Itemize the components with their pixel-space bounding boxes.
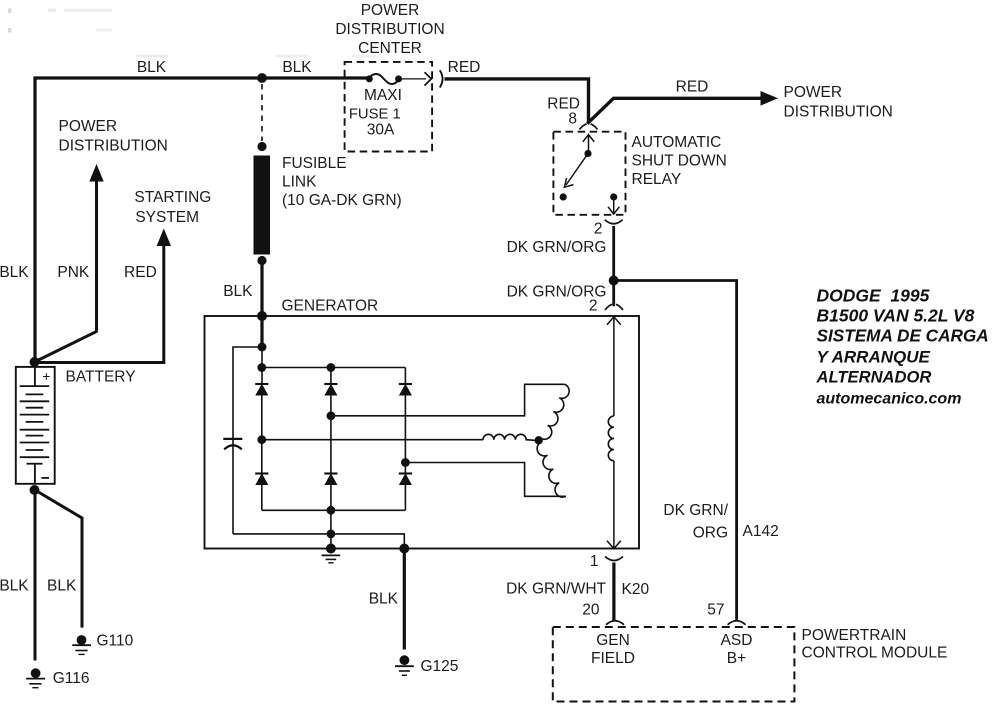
wire leg2 upper — [330, 368, 332, 385]
wire BLK battery to G110 — [35, 490, 82, 628]
connector cup PCM pin 20 — [606, 621, 624, 625]
wire RED to relay pin 8 — [445, 79, 589, 123]
svg-text:PNK: PNK — [57, 264, 90, 281]
connector male arrow — [425, 72, 432, 85]
node capacitor branch — [258, 343, 267, 352]
diode D4 — [255, 474, 268, 485]
wire PNK to power distribution — [37, 182, 97, 362]
svg-text:A142: A142 — [743, 523, 779, 540]
capacitor C1 — [223, 438, 242, 440]
svg-text:SISTEMA DE CARGA: SISTEMA DE CARGA — [817, 326, 989, 346]
svg-text:DISTRIBUTION: DISTRIBUTION — [784, 104, 893, 121]
generator G1 box — [205, 316, 640, 549]
svg-text:ASD: ASD — [721, 632, 753, 649]
svg-text:DODGE 1995: DODGE 1995 — [817, 286, 930, 306]
ground G125 — [400, 655, 410, 665]
wire leg2 lower — [330, 484, 332, 548]
wire inside generator top — [260, 316, 263, 347]
svg-text:SYSTEM: SYSTEM — [135, 209, 199, 226]
stator coil lower — [537, 442, 566, 497]
relay K1 automatic shut down relay box — [553, 132, 625, 215]
wire BLK battery to G116 — [34, 490, 37, 661]
node fusible link bottom — [257, 256, 266, 265]
node middle rail leg1 — [257, 435, 266, 444]
wire BLK fusible link to generator — [260, 261, 263, 316]
bottom rail — [262, 509, 406, 511]
svg-text:POWER: POWER — [784, 84, 843, 101]
ground symbol generator internal — [322, 555, 341, 562]
node top rail leg2 — [327, 363, 336, 372]
svg-text:ALTERNADOR: ALTERNADOR — [816, 368, 932, 387]
ground rail — [233, 534, 404, 549]
svg-text:BLK: BLK — [0, 264, 29, 281]
relay output contact dot — [610, 193, 617, 200]
phase3 lead — [405, 463, 566, 497]
svg-text:POWER: POWER — [59, 118, 118, 135]
svg-text:DK GRN/ORG: DK GRN/ORG — [507, 239, 607, 256]
wire BLK generator to G125 — [403, 549, 406, 650]
svg-text:BLK: BLK — [223, 283, 253, 300]
fuse F1 MAXI FUSE 1 30A — [366, 75, 373, 82]
svg-text:CONTROL MODULE: CONTROL MODULE — [802, 645, 948, 662]
svg-text:AUTOMATIC: AUTOMATIC — [632, 134, 722, 151]
wire leg3 mid — [404, 395, 406, 474]
connector cup generator pin 1 — [605, 557, 623, 561]
svg-text:2: 2 — [594, 221, 603, 238]
svg-text:RED: RED — [448, 59, 481, 76]
svg-text:2: 2 — [589, 298, 598, 315]
battery minus — [42, 477, 50, 479]
node generator ground — [326, 544, 336, 554]
svg-text:DK GRN/WHT: DK GRN/WHT — [506, 581, 606, 598]
svg-text:8: 8 — [568, 111, 577, 128]
node battery negative — [30, 485, 40, 495]
svg-text:RELAY: RELAY — [632, 171, 682, 188]
wire leg3 upper — [404, 368, 406, 385]
wire fuse to connector — [399, 78, 426, 80]
wire DK GRN/ORG relay to generator — [612, 226, 615, 306]
phase2 lead — [331, 384, 565, 416]
svg-text:automecanico.com: automecanico.com — [817, 391, 962, 408]
svg-text:30A: 30A — [367, 122, 395, 139]
svg-text:Y ARRANQUE: Y ARRANQUE — [817, 348, 931, 367]
svg-text:K20: K20 — [622, 581, 650, 598]
wire leg1 mid — [261, 395, 263, 474]
generator pin 1 arrow — [613, 461, 615, 548]
svg-text:G125: G125 — [421, 658, 459, 675]
PCM powertrain control module box — [553, 627, 795, 702]
svg-text:FIELD: FIELD — [591, 650, 635, 667]
connector cup generator pin 2 — [605, 304, 623, 310]
relay contact NO dot — [560, 193, 567, 200]
wire leg3 lower — [404, 484, 406, 510]
connector female arc — [440, 70, 443, 87]
svg-text:DISTRIBUTION: DISTRIBUTION — [335, 21, 444, 38]
node bottom rail leg2 — [327, 506, 336, 515]
svg-text:BLK: BLK — [0, 578, 29, 595]
svg-text:ORG: ORG — [693, 525, 728, 542]
battery plates — [20, 367, 50, 484]
arrow starting system — [157, 229, 171, 247]
svg-text:20: 20 — [582, 602, 600, 619]
wire branch to A142 — [614, 281, 737, 622]
top rail — [262, 367, 406, 369]
wire BLK battery to top rail — [35, 78, 262, 362]
svg-text:RED: RED — [124, 264, 157, 281]
power distribution center box — [345, 62, 433, 152]
svg-text:FUSE 1: FUSE 1 — [349, 106, 401, 122]
svg-text:DK GRN/: DK GRN/ — [663, 502, 728, 519]
relay common contact dot — [584, 150, 591, 157]
node ground rail leg2 — [327, 530, 336, 539]
svg-text:FUSIBLE: FUSIBLE — [282, 155, 347, 172]
svg-text:SHUT DOWN: SHUT DOWN — [632, 153, 727, 170]
node junction DK GRN/ORG — [609, 276, 619, 286]
svg-text:POWER: POWER — [361, 2, 420, 19]
svg-text:B1500 VAN 5.2L V8: B1500 VAN 5.2L V8 — [817, 306, 975, 326]
fusible link FL1 — [254, 156, 271, 255]
relay pin 2 arrow down — [613, 197, 615, 213]
diode D2 — [324, 384, 337, 395]
wire capacitor branch — [233, 347, 262, 534]
svg-text:G110: G110 — [97, 633, 134, 650]
node junction J1 — [257, 73, 267, 83]
svg-text:57: 57 — [707, 602, 724, 619]
svg-text:DISTRIBUTION: DISTRIBUTION — [59, 138, 168, 155]
generator pin 2 arrow — [613, 317, 615, 416]
svg-text:+: + — [42, 368, 50, 384]
wire leg2 mid — [330, 395, 332, 474]
node phase3 tap — [401, 458, 410, 467]
relay pin 8 arrow up — [588, 136, 590, 154]
arrow power distribution right — [761, 91, 779, 106]
svg-text:BLK: BLK — [369, 591, 399, 608]
wire DK GRN/WHT — [612, 563, 615, 621]
svg-text:1: 1 — [590, 553, 599, 570]
arrow power distribution left — [89, 164, 103, 182]
wire dashed J1 to fusible link — [261, 84, 263, 141]
diode D5 — [324, 474, 337, 485]
svg-text:LINK: LINK — [282, 174, 317, 191]
ground G110 — [77, 635, 87, 645]
svg-text:GEN: GEN — [596, 632, 630, 649]
node BLK ground exit — [399, 544, 409, 554]
wire leg1 upper — [261, 347, 263, 384]
node phase2 tap — [327, 411, 336, 420]
diode D6 — [399, 474, 412, 485]
svg-text:MAXI: MAXI — [364, 87, 402, 104]
svg-text:BLK: BLK — [282, 59, 312, 76]
wire leg1 lower — [261, 484, 263, 510]
connector cup relay pin 2 — [605, 220, 623, 224]
node top rail leg1 — [257, 363, 266, 372]
wire RED to power distribution — [587, 98, 761, 123]
stator coil upper — [541, 384, 569, 439]
svg-text:(10 GA-DK GRN): (10 GA-DK GRN) — [282, 192, 402, 209]
svg-text:BLK: BLK — [47, 578, 77, 595]
wire RED to starting system — [36, 246, 164, 363]
field coil L1 — [608, 416, 614, 461]
node star point — [535, 436, 543, 444]
svg-text:STARTING: STARTING — [134, 189, 211, 206]
ground G116 — [31, 668, 41, 678]
svg-text:BLK: BLK — [137, 59, 167, 76]
wire BLK J1 to fuse — [262, 76, 369, 79]
diode D3 — [399, 384, 412, 395]
stator coil middle — [483, 434, 535, 440]
node battery positive — [30, 357, 40, 367]
diode D1 — [255, 384, 268, 395]
svg-text:POWERTRAIN: POWERTRAIN — [802, 627, 907, 644]
middle rail to stator — [262, 439, 483, 441]
battery B1 — [16, 367, 55, 484]
svg-text:GENERATOR: GENERATOR — [282, 298, 379, 315]
svg-text:RED: RED — [676, 79, 709, 96]
connector cup PCM pin 57 — [728, 621, 746, 625]
svg-text:G116: G116 — [53, 670, 90, 687]
node BLK generator terminal — [257, 311, 267, 321]
connector cup pin 8 — [580, 124, 598, 130]
svg-text:B+: B+ — [727, 650, 746, 667]
svg-text:CENTER: CENTER — [358, 40, 422, 57]
node fusible link top — [257, 142, 266, 151]
svg-text:BATTERY: BATTERY — [66, 369, 136, 386]
relay armature — [566, 154, 588, 186]
